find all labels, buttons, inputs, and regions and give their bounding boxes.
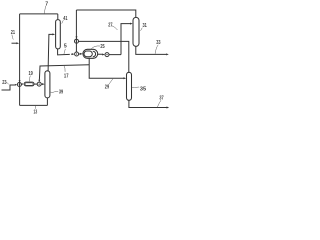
- arrowhead into col31 side feed 27: [130, 23, 133, 25]
- arrowhead down into V1: [76, 36, 78, 39]
- wire V1 branch vertical: [75, 10, 77, 52]
- leader 25: [91, 46, 100, 49]
- center dot C3: [19, 84, 20, 85]
- arrowhead after drum 25 into V2: [102, 54, 105, 56]
- wire col31 bottom to product 33: [136, 46, 166, 54]
- drum 25 inner capsule: [84, 51, 92, 57]
- center dot V2: [106, 54, 107, 55]
- svg-text:23: 23: [2, 80, 6, 86]
- drum 25 inner second end arc: [93, 51, 96, 57]
- valve V2 circle: [105, 53, 109, 57]
- svg-text:31: 31: [143, 23, 147, 29]
- svg-text:39: 39: [59, 90, 63, 96]
- center dot V1: [76, 41, 77, 42]
- wire col35 bottom to product 37: [129, 100, 167, 107]
- svg-text:13: 13: [34, 110, 38, 116]
- svg-text:27: 27: [108, 22, 112, 28]
- arrowhead hook into C3: [15, 84, 17, 86]
- wire col39 top riser to col41 feed: [48, 34, 53, 70]
- pump C3 circle on 23 line: [17, 83, 21, 87]
- leader 29: [109, 79, 113, 85]
- wire top-right line to col31 top: [76, 10, 135, 17]
- wire col41 top entry stem: [57, 14, 59, 20]
- wire feed 23 hook: [2, 85, 15, 90]
- svg-text:35: 35: [140, 87, 146, 93]
- svg-text:33: 33: [156, 40, 160, 46]
- arrowhead product 37: [167, 107, 170, 109]
- wire V1 horizontal to junction and down to col35 top: [78, 41, 128, 72]
- wire bottom line 13: [20, 104, 48, 106]
- svg-text:29: 29: [105, 84, 109, 90]
- wire V4 to col39 feed: [41, 83, 42, 85]
- leader 21: [12, 35, 13, 40]
- wire feed 21: [12, 42, 17, 44]
- wire drum19 to V4: [34, 83, 37, 85]
- leader 23: [6, 82, 8, 84]
- leader 33: [155, 45, 158, 54]
- svg-text:7: 7: [45, 1, 48, 7]
- drum 25 vaporizer outer shell: [83, 49, 98, 58]
- arrowhead V4 into col39: [42, 83, 45, 85]
- svg-text:41: 41: [63, 16, 67, 22]
- center dot P1: [76, 53, 77, 54]
- svg-text:19: 19: [29, 71, 33, 77]
- arrowhead into drum 25: [80, 53, 83, 55]
- arrowhead product 33: [166, 53, 169, 55]
- valve V1 circle: [75, 39, 79, 43]
- wire C3 to drum19: [20, 83, 23, 85]
- leader 19: [29, 76, 32, 82]
- wire left vertical main: [19, 14, 21, 106]
- arrowhead into col35 side 29: [124, 77, 127, 79]
- wire line 17: [39, 65, 89, 80]
- wire col31 side feed 27: [121, 24, 130, 55]
- column 35: [127, 72, 132, 100]
- center dot V4: [39, 84, 40, 85]
- arrowhead line5 into pump P1: [72, 53, 75, 55]
- arrowhead into col41 feed: [52, 33, 55, 35]
- arrowhead down into V4: [38, 80, 40, 82]
- leader 5: [64, 49, 65, 54]
- svg-text:37: 37: [159, 96, 163, 102]
- arrowhead feed 21 into left vertical: [16, 42, 19, 44]
- leader 41: [62, 20, 64, 23]
- wire drum outlet to V2: [98, 53, 121, 55]
- leader 31: [141, 28, 143, 31]
- svg-text:25: 25: [100, 44, 104, 50]
- leader 17: [64, 65, 65, 72]
- svg-text:17: 17: [64, 74, 69, 80]
- arrowhead down into C3: [19, 80, 21, 82]
- leader 39: [50, 91, 58, 92]
- drum 19 inner line: [25, 83, 33, 85]
- wire pump P1 to drum 25: [79, 53, 81, 55]
- pump V4 circle: [37, 82, 41, 86]
- column 39: [45, 71, 50, 98]
- drum 19: [24, 82, 34, 86]
- wire line 7 top-left horizontal: [20, 13, 58, 15]
- svg-text:21: 21: [11, 30, 15, 36]
- leader 13: [34, 106, 36, 109]
- leader 27: [112, 26, 118, 30]
- column 41: [56, 20, 61, 49]
- svg-text:5: 5: [64, 43, 67, 49]
- leader 37: [157, 100, 161, 107]
- column 31: [133, 17, 139, 46]
- wire col41 bottom stem and line 5: [58, 49, 72, 55]
- wire col39 bottom stem: [46, 98, 48, 106]
- arrowhead into drum19: [22, 83, 24, 85]
- pump P1 circle: [75, 52, 79, 56]
- wire drum 25 bottom stem and feed 29: [89, 58, 124, 78]
- leader 7: [44, 6, 46, 14]
- leader 35: [132, 86, 139, 89]
